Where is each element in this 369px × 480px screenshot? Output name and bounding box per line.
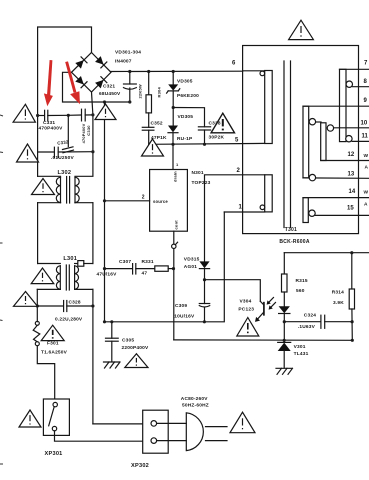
svg-text:C321: C321 xyxy=(103,84,115,90)
svg-text:AC80-260V: AC80-260V xyxy=(181,396,208,402)
T301 bias winding pins 2-1 xyxy=(265,175,273,212)
svg-text:30P2K: 30P2K xyxy=(209,134,225,140)
wire right AC to XP302 top xyxy=(93,423,143,425)
opto LED V304 xyxy=(279,306,290,313)
wire DC minus loop from bridge left vertex xyxy=(63,72,130,102)
ferrite bead on L301 top right xyxy=(75,263,78,265)
svg-text:470P400V: 470P400V xyxy=(39,125,64,131)
T301 core xyxy=(283,61,285,228)
wire drain down to N301 xyxy=(172,144,174,169)
red arrow 2 xyxy=(65,61,80,104)
svg-text:W: W xyxy=(364,190,369,196)
ground chassis under C305 xyxy=(104,361,120,363)
resistor R304 xyxy=(148,72,150,95)
wire source vertical xyxy=(104,102,106,322)
svg-text:AG01: AG01 xyxy=(184,264,197,270)
warning triangle T7 xyxy=(19,410,41,427)
warning triangle T14 xyxy=(95,104,116,120)
capacitor C330 xyxy=(81,109,83,121)
T301 secondary winding A pins 7-8-11 xyxy=(340,69,347,141)
svg-text:.01U250V: .01U250V xyxy=(51,155,75,161)
wire secondary feedback rail xyxy=(284,252,369,254)
warning triangles xyxy=(13,20,313,433)
svg-text:XP302: XP302 xyxy=(131,463,149,469)
svg-text:A: A xyxy=(364,202,368,208)
AC plug symbol xyxy=(186,413,203,451)
svg-text:T301: T301 xyxy=(285,227,297,233)
wire fuse to XP301 xyxy=(37,346,54,399)
svg-text:W: W xyxy=(364,153,369,159)
capacitor C338 xyxy=(198,126,210,128)
T301 primary winding pins 6-5 xyxy=(265,71,273,144)
svg-text:560: 560 xyxy=(296,288,305,294)
svg-text:C324: C324 xyxy=(304,312,316,318)
shunt regulator V301 TL431 xyxy=(278,341,291,343)
svg-text:2: 2 xyxy=(142,195,145,201)
wire control pin down xyxy=(173,231,175,340)
bridge rectifier VD301-304 diamond xyxy=(72,53,112,93)
svg-text:cont: cont xyxy=(174,220,179,230)
svg-text:TL431: TL431 xyxy=(294,351,309,357)
svg-text:A: A xyxy=(365,165,369,171)
wire stubs at left image edge xyxy=(0,115,3,464)
svg-text:47: 47 xyxy=(142,271,148,277)
svg-text:3.9K: 3.9K xyxy=(333,300,344,306)
resistor R314 xyxy=(351,253,353,289)
wire bias return: T301 pin1 down xyxy=(224,211,242,213)
svg-text:BCK-R600A: BCK-R600A xyxy=(279,239,309,245)
svg-text:RU-1P: RU-1P xyxy=(177,136,193,142)
diode VD301 top-left xyxy=(75,57,87,69)
svg-text:VD305: VD305 xyxy=(178,114,194,120)
svg-text:C307: C307 xyxy=(119,259,131,265)
warning triangle T11 bold xyxy=(211,113,234,133)
wire C332 line across xyxy=(38,151,54,153)
ground chassis under V301 xyxy=(276,367,292,369)
opto light arrows xyxy=(268,298,274,304)
capacitor C305 xyxy=(111,322,113,338)
warning triangle T4 xyxy=(31,268,54,284)
warning triangle T12 xyxy=(237,318,259,337)
diode VD302 top-right xyxy=(95,56,107,68)
svg-text:source: source xyxy=(153,199,168,204)
diode VD304 bottom-right xyxy=(95,77,107,89)
svg-text:PC123: PC123 xyxy=(238,306,254,312)
svg-text:2200P400V: 2200P400V xyxy=(122,345,149,351)
wire midpoint drop to C332 line xyxy=(67,115,69,146)
svg-text:C352: C352 xyxy=(151,121,163,127)
svg-text:XP301: XP301 xyxy=(45,451,63,457)
capacitor C309 xyxy=(204,280,206,304)
IC N301 TOP223 xyxy=(150,170,188,232)
wire AC2 vertical down to L302 xyxy=(92,115,94,176)
svg-text:VD315: VD315 xyxy=(184,257,200,263)
svg-text:R314: R314 xyxy=(332,290,344,296)
resistor R331 xyxy=(155,266,168,271)
labels group xyxy=(39,50,369,470)
svg-text:0.22U,280V: 0.22U,280V xyxy=(55,317,83,323)
svg-text:N301: N301 xyxy=(192,170,204,176)
wire clamp node to C338 xyxy=(173,108,204,127)
svg-text:13: 13 xyxy=(348,171,355,177)
svg-text:T1.6A250V: T1.6A250V xyxy=(41,350,68,356)
wire top loop from AC line to bridge top vertex xyxy=(38,27,92,116)
svg-text:22K5W: 22K5W xyxy=(138,84,143,98)
inductor L301 common mode choke xyxy=(38,263,61,265)
warning triangle T8 xyxy=(230,412,255,433)
DC plus bus from bridge right vertex to T301 pin6 xyxy=(111,70,243,72)
svg-text:11: 11 xyxy=(362,134,369,140)
wire AC1 vertical to L302 xyxy=(37,116,39,177)
node control test point xyxy=(172,244,176,248)
wire AC1 cap line xyxy=(38,115,44,117)
capacitor C332 main plates xyxy=(53,147,55,157)
warning triangle T1 xyxy=(13,104,35,122)
svg-text:R304: R304 xyxy=(157,87,162,98)
svg-text:VD305: VD305 xyxy=(177,79,193,85)
wire bridge bottom vertex down to AC2 cap line xyxy=(92,92,93,115)
capacitor C321 bulk xyxy=(129,72,131,85)
svg-text:R315: R315 xyxy=(296,278,308,284)
red arrow 1 xyxy=(44,60,53,106)
svg-text:47U/16V: 47U/16V xyxy=(97,272,118,278)
connector XP301 switch xyxy=(43,399,69,435)
wire L301 bottoms xyxy=(37,288,60,290)
capacitor C324 xyxy=(284,321,320,323)
inductor L302 common mode choke xyxy=(38,175,61,177)
svg-text:C330: C330 xyxy=(86,125,91,136)
diode VD305 P6KE200 xyxy=(172,72,174,85)
svg-text:IN4007: IN4007 xyxy=(115,59,132,65)
warning triangle T13 xyxy=(289,20,314,39)
svg-text:.1U63V: .1U63V xyxy=(298,324,316,330)
transformer T301 box xyxy=(243,46,359,234)
resistor R315 xyxy=(283,253,285,274)
diode VD305 RU-1P xyxy=(172,108,174,126)
svg-text:P6KE200: P6KE200 xyxy=(177,93,199,99)
svg-text:C328: C328 xyxy=(69,300,81,306)
svg-text:C309: C309 xyxy=(175,303,187,309)
wire V304 collector feed xyxy=(205,280,261,302)
warning triangle T3 xyxy=(32,179,55,195)
capacitor C332 slanted plates xyxy=(63,147,74,150)
capacitor C307 xyxy=(105,268,133,270)
svg-text:50HZ-60HZ: 50HZ-60HZ xyxy=(182,403,209,409)
wire L302 bottom to loop xyxy=(38,202,61,204)
svg-text:TOP223: TOP223 xyxy=(192,180,211,186)
diode VD315 AG01 xyxy=(199,261,209,268)
svg-text:14: 14 xyxy=(349,189,356,195)
svg-text:F301: F301 xyxy=(47,341,59,347)
warning triangle T10 xyxy=(142,139,164,156)
optocoupler V304 phototransistor xyxy=(263,303,265,315)
svg-text:L301: L301 xyxy=(63,256,77,262)
fuse F301 xyxy=(35,321,39,325)
wire primary ground bus xyxy=(105,212,225,322)
svg-text:68U450V: 68U450V xyxy=(99,91,121,97)
svg-text:10: 10 xyxy=(361,121,368,127)
wire control feedback bus xyxy=(174,339,352,341)
warning triangle T6 xyxy=(41,325,64,340)
wire drain line to T301 pin5 xyxy=(149,142,265,145)
capacitor C328 across line xyxy=(36,304,39,307)
T301 secondary winding B pins 9-13 xyxy=(303,106,309,178)
T301 secondary winding C pins 10-12 xyxy=(316,121,321,123)
warning triangle T9 xyxy=(125,354,148,368)
node mid AC caps xyxy=(67,114,70,117)
svg-text:10U/16V: 10U/16V xyxy=(174,313,195,319)
capacitor C331 xyxy=(44,110,46,121)
svg-text:12: 12 xyxy=(348,152,355,158)
wire XP301 bottom to XP302 bottom xyxy=(55,431,143,441)
svg-text:V304: V304 xyxy=(240,299,252,305)
svg-text:V301: V301 xyxy=(294,344,306,350)
svg-text:L302: L302 xyxy=(58,170,72,176)
connector XP302 xyxy=(143,410,169,453)
svg-text:C305: C305 xyxy=(122,337,134,343)
svg-text:VD301-304: VD301-304 xyxy=(115,50,141,56)
svg-text:drain: drain xyxy=(173,171,178,182)
diode VD303 bottom-left xyxy=(75,76,87,88)
warning triangle T5 xyxy=(14,292,38,307)
T301 secondary winding E pins 14-15 xyxy=(303,198,308,223)
svg-text:15: 15 xyxy=(347,206,354,212)
svg-text:R331: R331 xyxy=(142,259,154,265)
capacitor C352 xyxy=(142,126,154,128)
wire source pin xyxy=(105,200,150,202)
wire bias: T301 pin2 to VD315 xyxy=(205,175,243,262)
warning triangle T2 xyxy=(17,144,39,162)
svg-text:C331: C331 xyxy=(43,120,55,126)
